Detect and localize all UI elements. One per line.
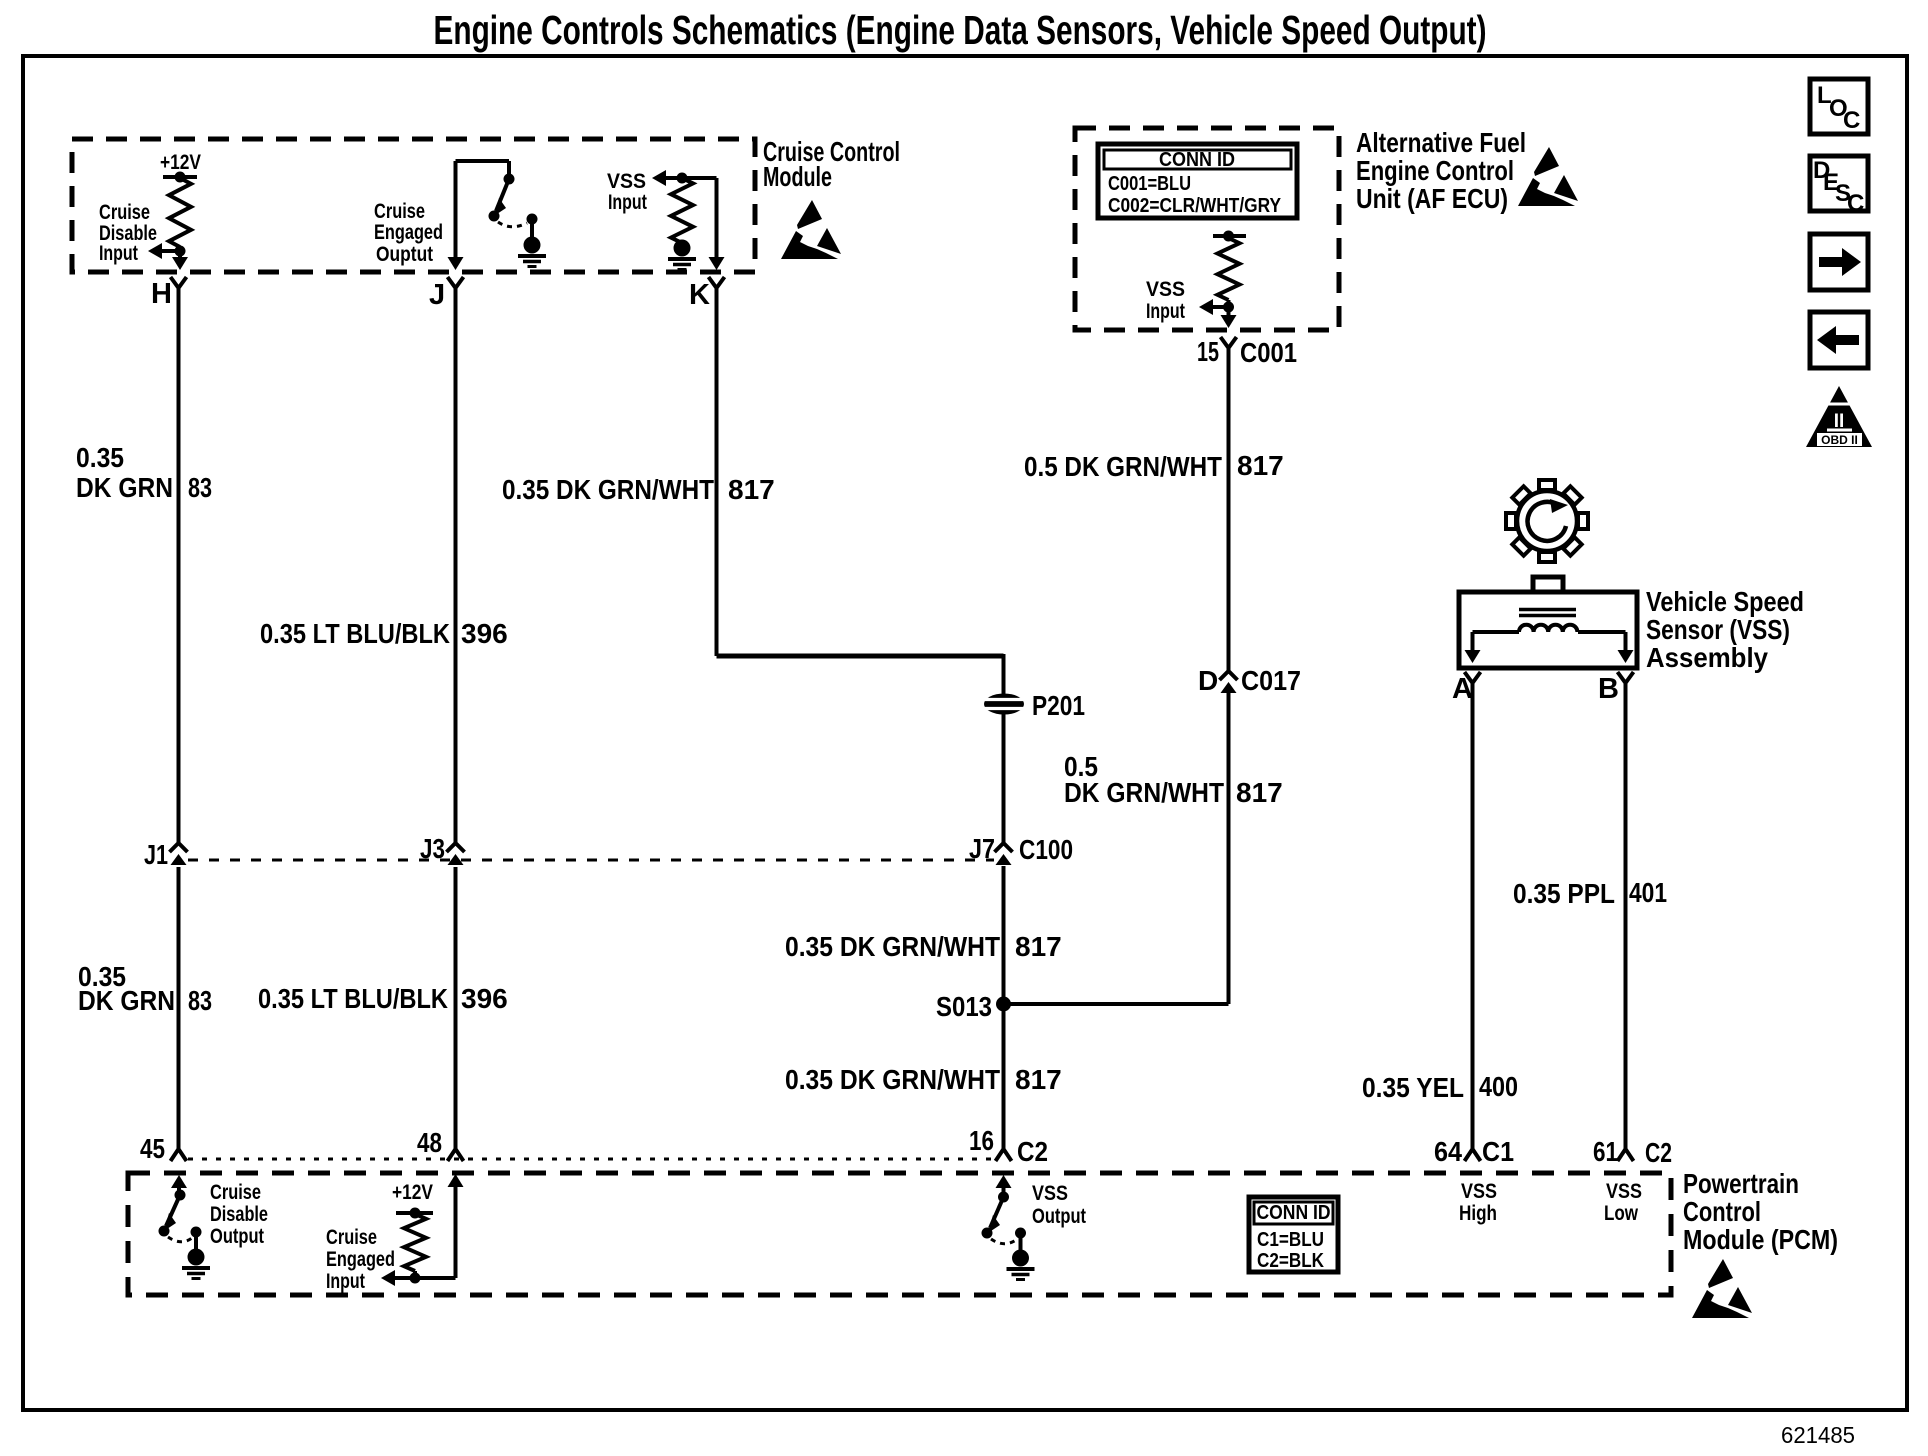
svg-text:Cruise: Cruise <box>210 1181 261 1204</box>
svg-text:H: H <box>151 278 172 310</box>
node: resistor bottom junction <box>178 247 182 251</box>
svg-text:Input: Input <box>326 1270 365 1293</box>
svg-text:0.35: 0.35 <box>76 442 124 473</box>
svg-text:817: 817 <box>1015 931 1062 962</box>
svg-text:OBD II: OBD II <box>1821 433 1858 447</box>
svg-text:CONN ID: CONN ID <box>1159 149 1235 171</box>
svg-text:396: 396 <box>461 983 508 1014</box>
svg-text:817: 817 <box>1237 450 1284 481</box>
svg-text:Engaged: Engaged <box>326 1248 395 1271</box>
wire: 0.5 DK GRN/WHT 817 (C001 down to C017) <box>1227 368 1231 671</box>
svg-text:621485: 621485 <box>1781 1422 1855 1448</box>
icon: OBD II triangle <box>1806 386 1872 447</box>
svg-text:C001: C001 <box>1240 337 1297 368</box>
svg-text:Cruise: Cruise <box>99 201 150 224</box>
wire: C017 down to splice S013 <box>1227 693 1231 1004</box>
wire: switch to pin J, arrow at module edge <box>454 161 458 259</box>
svg-text:Input: Input <box>99 242 138 265</box>
svg-text:Cruise: Cruise <box>374 200 425 223</box>
svg-text:Assembly: Assembly <box>1646 642 1768 673</box>
svg-text:P201: P201 <box>1032 690 1085 721</box>
svg-text:817: 817 <box>728 474 775 505</box>
svg-text:48: 48 <box>417 1127 442 1158</box>
wire: junction to pin 15, arrow at module edge <box>1227 307 1231 317</box>
svg-text:CONN ID: CONN ID <box>1257 1202 1331 1224</box>
svg-text:VSS: VSS <box>1461 1180 1497 1203</box>
svg-text:16: 16 <box>969 1125 994 1156</box>
svg-text:0.35 DK GRN/WHT: 0.35 DK GRN/WHT <box>785 1064 1000 1095</box>
svg-text:Output: Output <box>1032 1205 1086 1228</box>
grommet P201 <box>984 694 1024 715</box>
ground (VSS Input resistor, Cruise Control Module) <box>674 240 691 257</box>
svg-text:0.35 LT BLU/BLK: 0.35 LT BLU/BLK <box>258 983 448 1014</box>
svg-text:C: C <box>1843 107 1860 134</box>
pin 15 (connector C001) <box>1221 337 1237 348</box>
svg-text:0.35 YEL: 0.35 YEL <box>1362 1072 1464 1103</box>
ESD symbol (Cruise Control Module) <box>781 200 841 259</box>
svg-text:61: 61 <box>1593 1136 1618 1167</box>
svg-text:DK GRN: DK GRN <box>76 472 173 503</box>
svg-text:0.5 DK GRN/WHT: 0.5 DK GRN/WHT <box>1024 451 1222 482</box>
svg-text:+12V: +12V <box>160 151 201 174</box>
icon: DESC button <box>1810 156 1868 211</box>
svg-text:Disable: Disable <box>210 1203 268 1226</box>
pin 48 <box>448 1149 464 1161</box>
svg-text:DK GRN/WHT: DK GRN/WHT <box>1064 777 1224 808</box>
wire: junction down to pin H, arrow at module edge <box>178 251 182 259</box>
svg-text:VSS: VSS <box>1146 278 1185 301</box>
wire J: 0.35 LT BLU/BLK 396 (pin J to PCM pin 48) <box>454 302 458 845</box>
splice S013 <box>996 997 1011 1012</box>
svg-text:C1: C1 <box>1482 1136 1514 1167</box>
svg-text:C2=BLK: C2=BLK <box>1257 1250 1324 1272</box>
svg-text:J7: J7 <box>969 833 995 864</box>
svg-text:400: 400 <box>1479 1071 1518 1102</box>
svg-text:D: D <box>1198 665 1218 696</box>
pin 64 (connector C1) <box>1465 1149 1481 1161</box>
svg-text:Engine Controls Schematics (En: Engine Controls Schematics (Engine Data … <box>434 7 1487 53</box>
svg-text:Low: Low <box>1604 1202 1639 1225</box>
svg-text:J3: J3 <box>420 833 445 864</box>
gear: VSS tone wheel <box>1506 480 1588 562</box>
pin 45 <box>171 1149 187 1161</box>
svg-text:Input: Input <box>608 191 647 214</box>
svg-text:0.35 DK GRN/WHT: 0.35 DK GRN/WHT <box>785 931 1000 962</box>
resistor: Cruise Engaged Input pull-up (PCM) <box>396 1211 433 1215</box>
ESD symbol (PCM) <box>1692 1259 1752 1318</box>
svg-text:C2: C2 <box>1017 1136 1048 1167</box>
wire A: 0.35 YEL 400 <box>1471 700 1475 1149</box>
svg-text:Module (PCM): Module (PCM) <box>1683 1224 1838 1255</box>
inline connector J3 (C100) <box>447 843 465 852</box>
pin H <box>171 277 187 288</box>
module box: Powertrain Control Module (PCM) <box>128 1173 1671 1295</box>
switch: Cruise Engaged Ouptut <box>456 159 510 163</box>
svg-text:+12V: +12V <box>392 1181 433 1204</box>
svg-text:C002=CLR/WHT/GRY: C002=CLR/WHT/GRY <box>1108 195 1282 217</box>
svg-text:15: 15 <box>1197 336 1219 367</box>
svg-text:C: C <box>1847 190 1864 217</box>
arrow: VSS Input (points left) <box>660 176 717 180</box>
svg-text:C017: C017 <box>1241 665 1301 696</box>
pin K <box>709 277 725 288</box>
CONN ID table (AF ECU) <box>1098 144 1297 218</box>
inline connector D C017 <box>1220 671 1238 680</box>
pin A <box>1465 672 1481 683</box>
ground (Cruise Engaged Ouptut switch contact) <box>524 237 541 254</box>
inline connector J1 (C100) <box>170 843 188 852</box>
wire: J7 down through S013 to PCM pin 16 <box>1002 866 1006 1149</box>
inductor: VSS pickup coil with core <box>1519 608 1576 612</box>
svg-text:Alternative Fuel: Alternative Fuel <box>1356 127 1526 158</box>
svg-text:VSS: VSS <box>1606 1180 1642 1203</box>
svg-text:396: 396 <box>461 618 508 649</box>
switch: Cruise Disable Output <box>171 1175 187 1188</box>
svg-text:Input: Input <box>1146 300 1185 323</box>
svg-text:DK GRN: DK GRN <box>78 985 175 1016</box>
wire B: 0.35 PPL 401 <box>1624 700 1628 1149</box>
wire: junction up to pin 48 with arrow <box>415 1276 456 1280</box>
module box: Alternative Fuel Engine Control Unit <box>1075 128 1339 330</box>
svg-text:High: High <box>1459 1202 1497 1225</box>
svg-text:B: B <box>1598 673 1619 705</box>
resistor R: Cruise Disable Input pull-up <box>163 175 197 179</box>
svg-text:J: J <box>429 279 445 311</box>
connector C2 pin row line <box>188 1158 994 1161</box>
svg-text:Ouptut: Ouptut <box>376 243 433 266</box>
svg-text:Module: Module <box>763 161 832 192</box>
svg-text:Control: Control <box>1683 1196 1761 1227</box>
resistor: VSS Input (AF ECU) <box>1213 234 1246 238</box>
wires: coil ends to pins A and B with arrows <box>1473 630 1520 634</box>
arrow: Cruise Engaged Input (points left) <box>393 1276 415 1280</box>
node: PCM resistor bottom junction <box>413 1271 417 1278</box>
svg-text:Cruise: Cruise <box>326 1226 377 1249</box>
svg-text:VSS: VSS <box>607 170 646 193</box>
svg-text:S013: S013 <box>936 991 992 1022</box>
svg-text:C2: C2 <box>1645 1137 1672 1168</box>
arrow: Cruise Disable Input (points left) <box>160 249 180 253</box>
svg-text:A: A <box>1452 673 1473 705</box>
svg-text:0.35 LT BLU/BLK: 0.35 LT BLU/BLK <box>260 618 450 649</box>
svg-text:J1: J1 <box>144 839 168 870</box>
svg-text:K: K <box>689 279 710 311</box>
svg-text:817: 817 <box>1236 777 1283 808</box>
svg-text:45: 45 <box>140 1133 165 1164</box>
ground (VSS Output switch) <box>1012 1250 1029 1267</box>
svg-text:Unit (AF ECU): Unit (AF ECU) <box>1356 183 1508 214</box>
pin B <box>1618 672 1634 683</box>
svg-text:0.35 PPL: 0.35 PPL <box>1513 878 1615 909</box>
resistor: VSS Input (Cruise Control Module) <box>677 173 688 184</box>
inline connector J7 C100 <box>995 843 1013 852</box>
wire H: 0.35 DK GRN 83 (pin H to PCM pin 45) <box>177 302 181 845</box>
icon: back arrow button <box>1810 312 1868 368</box>
svg-text:C001=BLU: C001=BLU <box>1108 173 1191 195</box>
wire K: 0.35 DK GRN/WHT 817 (pin K, right and down to P201) <box>715 302 719 656</box>
svg-text:C100: C100 <box>1019 834 1073 865</box>
connector C100 harness line <box>188 859 994 862</box>
pin 16 (connector C2) <box>996 1149 1012 1161</box>
svg-text:Powertrain: Powertrain <box>1683 1168 1799 1199</box>
svg-text:83: 83 <box>188 472 212 503</box>
wire: VSS Input line to pin K, arrow at module edge <box>715 178 719 259</box>
svg-text:Engaged: Engaged <box>374 221 443 244</box>
svg-text:Output: Output <box>210 1225 264 1248</box>
node: AF resistor bottom junction <box>1227 300 1231 307</box>
pin J <box>448 277 464 288</box>
svg-text:401: 401 <box>1629 877 1667 908</box>
ESD symbol (AF ECU) <box>1518 147 1578 206</box>
module box: Cruise Control Module <box>72 139 755 272</box>
svg-text:64: 64 <box>1434 1136 1462 1167</box>
CONN ID table (PCM) <box>1249 1197 1338 1272</box>
switch: VSS Output <box>996 1175 1012 1188</box>
VSS assembly housing box with mounting tab <box>1533 577 1563 592</box>
svg-text:0.35 DK GRN/WHT: 0.35 DK GRN/WHT <box>502 474 714 505</box>
svg-text:817: 817 <box>1015 1064 1062 1095</box>
ground (Cruise Disable Output switch) <box>188 1249 205 1266</box>
svg-text:Vehicle Speed: Vehicle Speed <box>1646 586 1804 617</box>
svg-text:Engine Control: Engine Control <box>1356 155 1514 186</box>
svg-text:83: 83 <box>188 985 212 1016</box>
svg-text:VSS: VSS <box>1032 1182 1068 1205</box>
arrow: VSS Input (AF ECU, points left) <box>1211 305 1229 309</box>
icon: LOC button <box>1810 79 1868 134</box>
pin 61 (connector C2) <box>1618 1149 1634 1161</box>
icon: forward arrow button <box>1810 234 1868 290</box>
wire: P201 down to connector C100 J7 <box>1002 713 1006 845</box>
svg-text:Sensor (VSS): Sensor (VSS) <box>1646 614 1790 645</box>
svg-text:C1=BLU: C1=BLU <box>1257 1229 1324 1251</box>
